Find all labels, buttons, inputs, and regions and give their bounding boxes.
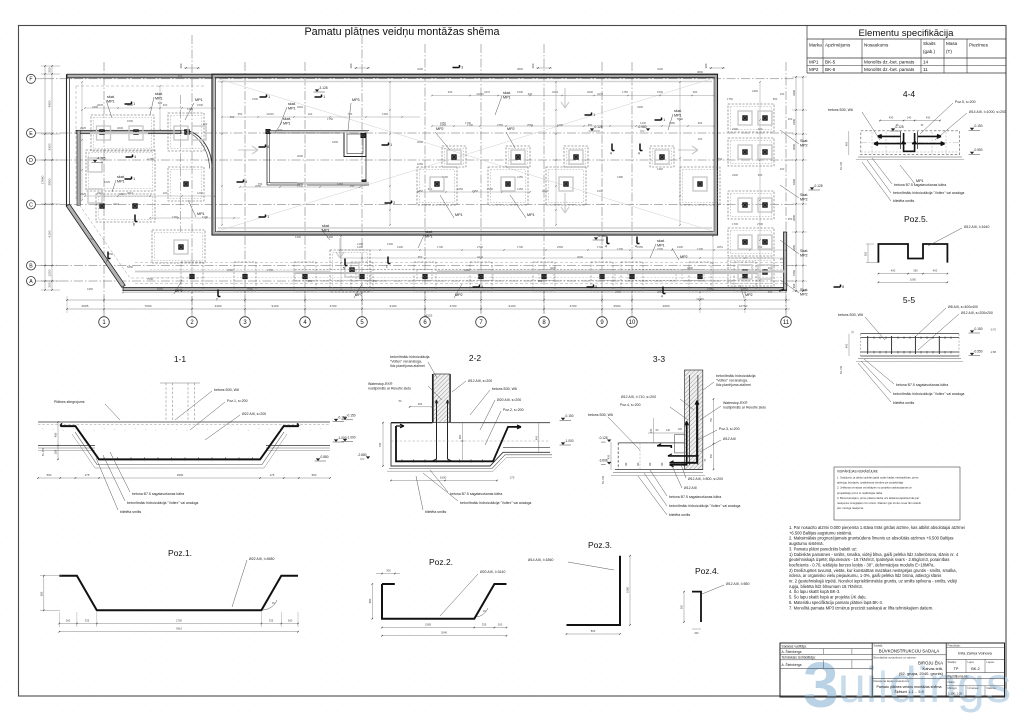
svg-text:1060: 1060 <box>910 277 916 281</box>
svg-text:4600: 4600 <box>577 255 583 259</box>
svg-text:Monolīts dz.-bet. pamats: Monolīts dz.-bet. pamats <box>864 67 915 72</box>
svg-text:1585: 1585 <box>425 623 431 627</box>
svg-text:BK-6: BK-6 <box>825 67 836 72</box>
svg-text:450: 450 <box>418 402 423 406</box>
svg-text:2300: 2300 <box>732 173 738 177</box>
svg-text:Sadaļas vadītāja:: Sadaļas vadītāja: <box>782 644 807 648</box>
svg-text:2500: 2500 <box>614 304 621 308</box>
svg-text:400: 400 <box>844 141 848 146</box>
svg-text:350: 350 <box>864 251 868 256</box>
svg-text:Ø14 AIII, I=1000, s=200: Ø14 AIII, I=1000, s=200 <box>969 110 1006 114</box>
svg-text:800: 800 <box>591 629 596 633</box>
svg-text:200: 200 <box>48 67 52 72</box>
svg-text:750: 750 <box>710 417 713 422</box>
svg-text:betona B7.5 sagatavošanas kātr: betona B7.5 sagatavošanas kātra <box>132 492 184 496</box>
svg-text:"Voltex" vai analoga,: "Voltex" vai analoga, <box>716 378 748 382</box>
svg-text:Ø12 AIII, I=1640: Ø12 AIII, I=1640 <box>964 225 989 229</box>
svg-text:4900: 4900 <box>48 100 52 107</box>
svg-text:10200: 10200 <box>266 112 274 116</box>
grid line 3 <box>244 62 246 317</box>
svg-text:betonītmālu hidroizolācija: betonītmālu hidroizolācija <box>390 355 430 359</box>
svg-text:1450: 1450 <box>517 187 523 191</box>
svg-text:-0.150: -0.150 <box>565 414 574 418</box>
svg-text:1: 1 <box>133 102 135 106</box>
svg-text:1200: 1200 <box>48 269 52 276</box>
svg-text:4: 4 <box>605 245 607 249</box>
svg-text:4400: 4400 <box>464 268 470 272</box>
svg-text:200: 200 <box>780 167 785 171</box>
grid line 5 <box>361 35 363 317</box>
svg-text:350: 350 <box>913 269 918 273</box>
svg-text:2150: 2150 <box>517 175 523 179</box>
svg-text:-0.880: -0.880 <box>320 455 329 459</box>
svg-text:4: 4 <box>661 295 663 299</box>
svg-text:2. Maksimālais prognozējamais: 2. Maksimālais prognozējamais gruntsūden… <box>789 536 953 541</box>
svg-text:Skaits: Skaits <box>923 41 936 46</box>
svg-text:Poz.3, s=200: Poz.3, s=200 <box>719 427 740 431</box>
svg-text:MP1: MP1 <box>455 213 463 217</box>
svg-text:2250: 2250 <box>472 189 478 193</box>
grid line C <box>45 204 795 206</box>
detail Poz.1 <box>59 576 298 611</box>
svg-text:4: 4 <box>635 245 637 249</box>
svg-text:2300: 2300 <box>677 245 683 249</box>
svg-text:300: 300 <box>158 101 163 105</box>
svg-text:Marka: Marka <box>809 43 822 48</box>
detail Poz.4 <box>692 592 701 622</box>
svg-text:260: 260 <box>288 619 293 623</box>
svg-text:Pasūtījuma Nr.:: Pasūtījuma Nr.: <box>948 674 970 678</box>
footing MP1 row <box>417 167 457 205</box>
svg-text:750: 750 <box>718 157 723 161</box>
svg-text:MP2: MP2 <box>800 292 808 296</box>
svg-text:2800: 2800 <box>48 178 52 185</box>
svg-text:6. Materiālu specifikāciju pa: 6. Materiālu specifikāciju pamatu plātne… <box>789 600 883 605</box>
svg-text:400: 400 <box>534 435 538 440</box>
svg-text:2040: 2040 <box>441 631 447 635</box>
svg-text:Poz.1.: Poz.1. <box>168 548 192 558</box>
svg-text:Pamatu plātnes veidņu montāžas: Pamatu plātnes veidņu montāžas shēma <box>304 26 499 38</box>
svg-text:2600: 2600 <box>542 189 548 193</box>
svg-text:3-3: 3-3 <box>653 354 666 364</box>
svg-text:1700: 1700 <box>467 123 473 127</box>
svg-text:1: 1 <box>268 95 270 99</box>
svg-text:1300: 1300 <box>397 245 403 249</box>
svg-text:betona B7.5 sagatavošanas kātr: betona B7.5 sagatavošanas kātra <box>894 183 946 187</box>
svg-text:650: 650 <box>238 112 243 116</box>
svg-text:1700: 1700 <box>517 245 523 249</box>
svg-text:betonītmālu hidroizolācija "Vo: betonītmālu hidroizolācija "Voltex" vai … <box>893 191 964 195</box>
svg-text:3294: 3294 <box>297 105 303 109</box>
svg-text:11: 11 <box>783 320 790 326</box>
section cut marks plan <box>260 96 267 98</box>
footing MP1 b <box>86 150 155 191</box>
svg-text:10: 10 <box>629 320 636 326</box>
svg-text:MP1: MP1 <box>155 96 163 100</box>
svg-text:100: 100 <box>698 137 703 141</box>
grid line 11 <box>785 62 787 317</box>
svg-text:2700: 2700 <box>757 222 763 226</box>
left dimension chain <box>51 66 53 290</box>
plan internal dim rows <box>432 95 714 97</box>
svg-text:100: 100 <box>163 191 168 195</box>
svg-text:950: 950 <box>308 279 313 283</box>
svg-text:BK-5: BK-5 <box>825 60 836 65</box>
svg-text:2600: 2600 <box>663 304 670 308</box>
svg-text:-0.550: -0.550 <box>974 349 983 353</box>
svg-text:(gab.): (gab.) <box>923 49 935 54</box>
svg-text:200: 200 <box>531 63 535 68</box>
svg-text:Izmaiņas:: Izmaiņas: <box>968 686 980 690</box>
svg-text:700: 700 <box>378 442 382 447</box>
section 5-5 labels <box>865 317 885 340</box>
svg-text:50..150: 50..150 <box>840 161 843 170</box>
svg-text:nr. 2 ģeotehniskajā izpētē. No: nr. 2 ģeotehniskajā izpētē. Norokot iepr… <box>789 579 957 584</box>
svg-text:335: 335 <box>482 623 487 627</box>
svg-text:2800: 2800 <box>792 215 796 221</box>
svg-text:200: 200 <box>704 63 708 68</box>
svg-text:Lapa:: Lapa: <box>968 660 975 664</box>
svg-text:50..150: 50..150 <box>42 447 45 456</box>
svg-text:Stadija:: Stadija: <box>948 660 957 664</box>
grid line D <box>45 159 795 161</box>
svg-text:-0.70: -0.70 <box>990 328 996 332</box>
section 2-2 <box>434 374 450 423</box>
svg-text:950: 950 <box>792 283 796 288</box>
svg-text:4400: 4400 <box>215 304 222 308</box>
svg-text:1360: 1360 <box>382 112 388 116</box>
svg-text:MP1: MP1 <box>674 113 682 117</box>
svg-text:1750: 1750 <box>727 97 733 101</box>
svg-text:4700: 4700 <box>330 304 337 308</box>
svg-text:blietēta smilts: blietēta smilts <box>120 510 141 514</box>
svg-text:Ø12 AIII, s=200x200: Ø12 AIII, s=200x200 <box>961 311 993 315</box>
svg-text:240: 240 <box>649 428 653 433</box>
svg-text:-0.150: -0.150 <box>974 327 983 331</box>
svg-text:335: 335 <box>269 619 274 623</box>
section 1-1 <box>38 421 330 423</box>
svg-text:1500: 1500 <box>657 90 663 94</box>
svg-text:2900: 2900 <box>177 473 184 477</box>
svg-text:-1.000: -1.000 <box>347 435 356 439</box>
skat labels <box>106 100 112 118</box>
svg-text:1-1: 1-1 <box>174 354 187 364</box>
svg-text:Poz.5.: Poz.5. <box>904 214 928 224</box>
svg-text:2600: 2600 <box>417 140 423 144</box>
svg-text:betonītmālu hidroizolācija "Vo: betonītmālu hidroizolācija "Voltex" vai … <box>893 392 964 396</box>
svg-text:1. Par nosacīto atzīmi 0.000: 1. Par nosacīto atzīmi 0.000 pieņemta 1.… <box>789 525 965 530</box>
svg-text:260: 260 <box>66 619 71 623</box>
svg-text:F: F <box>29 77 32 83</box>
svg-text:950: 950 <box>538 279 543 283</box>
west inner wall band <box>77 130 80 205</box>
svg-text:projektētāju pirms to realizāc: projektētāju pirms to realizācijas dabā. <box>837 491 883 495</box>
svg-text:50..150: 50..150 <box>840 365 843 374</box>
svg-text:Poz.3.: Poz.3. <box>588 540 612 550</box>
svg-text:Ø12 AIII, s=200: Ø12 AIII, s=200 <box>468 379 492 383</box>
svg-text:-0.128: -0.128 <box>814 184 823 188</box>
svg-text:7000: 7000 <box>145 304 152 308</box>
plan east wall <box>784 232 787 290</box>
svg-text:200: 200 <box>179 63 183 68</box>
svg-text:MP2: MP2 <box>809 67 819 72</box>
svg-text:irdena, ar organisko vielu pie: irdena, ar organisko vielu piejaukumu, 1… <box>789 573 941 578</box>
svg-text:betona B7.5 sagatavošanas kātr: betona B7.5 sagatavošanas kātra <box>669 495 721 499</box>
svg-text:1200: 1200 <box>197 191 203 195</box>
svg-text:g: g <box>957 657 985 713</box>
svg-text:Waterstop-RX®: Waterstop-RX® <box>723 401 748 405</box>
svg-text:-2.880: -2.880 <box>357 453 366 457</box>
svg-text:8: 8 <box>481 285 483 289</box>
svg-text:betonītmālu hidroizolācija "Vo: betonītmālu hidroizolācija "Voltex" vai … <box>127 501 198 505</box>
svg-text:200: 200 <box>278 128 283 132</box>
svg-text:1360: 1360 <box>657 167 663 171</box>
grid line 1 <box>103 62 105 317</box>
svg-text:960: 960 <box>698 121 703 125</box>
svg-text:-3.128: -3.128 <box>319 86 328 90</box>
interior walls <box>267 130 369 132</box>
svg-text:C: C <box>29 202 33 208</box>
detail Poz.2 <box>382 584 507 619</box>
svg-text:4400: 4400 <box>417 67 423 71</box>
svg-text:2360: 2360 <box>752 89 758 93</box>
svg-text:MP1: MP1 <box>657 243 665 247</box>
svg-text:1: 1 <box>593 113 595 117</box>
svg-text:MP1: MP1 <box>503 95 511 99</box>
bottom dimension chain <box>67 299 790 301</box>
svg-text:1800: 1800 <box>332 140 338 144</box>
svg-text:2. Jebkuras izmaiņas vai atkāp: 2. Jebkuras izmaiņas vai atkāpes no proj… <box>837 486 912 490</box>
svg-text:1300: 1300 <box>295 235 301 239</box>
svg-text:1700: 1700 <box>697 247 703 251</box>
svg-text:1360: 1360 <box>337 182 343 186</box>
svg-text:400: 400 <box>891 269 896 273</box>
svg-text:3300: 3300 <box>48 143 52 150</box>
svg-text:1600: 1600 <box>440 476 447 480</box>
svg-text:9100: 9100 <box>509 304 516 308</box>
svg-text:MP3: MP3 <box>352 98 360 102</box>
svg-text:Inita Zariņa Voinova: Inita Zariņa Voinova <box>958 652 992 656</box>
svg-text:1: 1 <box>390 143 392 147</box>
section 2-2 labels <box>428 362 437 378</box>
svg-text:līdz planējuma atzīmei: līdz planējuma atzīmei <box>716 383 751 387</box>
section 3-3 <box>685 370 703 470</box>
svg-text:1380: 1380 <box>617 175 623 179</box>
svg-text:560: 560 <box>39 591 43 596</box>
svg-text:2000: 2000 <box>297 154 303 158</box>
svg-text:7. Monolītā pamata MP3 izmēru: 7. Monolītā pamata MP3 izmērus precizēt … <box>789 605 933 610</box>
svg-text:-2.88: -2.88 <box>990 350 996 354</box>
svg-text:2700: 2700 <box>477 245 483 249</box>
svg-text:B: B <box>29 263 33 269</box>
grid line 2 <box>191 35 193 317</box>
grid line 4 <box>304 62 306 317</box>
svg-text:430: 430 <box>889 116 894 120</box>
svg-text:BK-2: BK-2 <box>971 667 979 671</box>
svg-text:-0.128: -0.128 <box>599 436 608 440</box>
svg-text:blietēta smilts: blietēta smilts <box>669 513 690 517</box>
hall wall rectangle <box>214 76 716 233</box>
svg-text:1750: 1750 <box>327 117 333 121</box>
svg-text:Ø12 AIII: Ø12 AIII <box>723 437 736 441</box>
svg-text:1750: 1750 <box>622 90 628 94</box>
detail Poz.3 <box>567 556 621 625</box>
plan west wall diagonal <box>66 204 125 287</box>
svg-text:17860: 17860 <box>41 175 45 184</box>
svg-text:2651: 2651 <box>742 287 748 291</box>
svg-text:2050: 2050 <box>255 184 261 188</box>
svg-text:2925: 2925 <box>80 126 86 130</box>
section 5-5 <box>861 333 960 335</box>
formwork outlines <box>97 126 111 140</box>
svg-text:1:100; 1:20: 1:100; 1:20 <box>948 692 962 696</box>
svg-text:1: 1 <box>323 95 325 99</box>
svg-text:pēc mēroga rasējumā.: pēc mēroga rasējumā. <box>837 506 864 510</box>
svg-text:950: 950 <box>588 123 593 127</box>
svg-text:"Voltex" vai analoga,: "Voltex" vai analoga, <box>390 359 422 363</box>
svg-text:360: 360 <box>458 434 462 439</box>
svg-text:Poz.4.: Poz.4. <box>695 566 719 576</box>
svg-text:3. Pamatu plātni paredzēts ba: 3. Pamatu plātni paredzēts balstīt uz: <box>789 546 857 551</box>
watermark logo <box>803 649 1011 721</box>
svg-text:140: 140 <box>666 429 671 432</box>
svg-text:Pasūtītājs:: Pasūtītājs: <box>948 644 961 648</box>
svg-text:betons B30, W6: betons B30, W6 <box>828 108 853 112</box>
E row wall band <box>76 130 181 133</box>
svg-text:1060: 1060 <box>626 587 630 593</box>
detail Poz.5 <box>878 244 947 263</box>
svg-text:4. Šo lapu skatīt kopā BK-3.: 4. Šo lapu skatīt kopā BK-3. <box>789 589 840 594</box>
svg-text:2600: 2600 <box>792 144 796 150</box>
svg-text:480: 480 <box>54 432 58 437</box>
svg-text:9100: 9100 <box>272 304 279 308</box>
inner offset dashed <box>76 86 205 278</box>
svg-text:1. Gadījumā, ja darbu izpildes: 1. Gadījumā, ja darbu izpildes gaitā rod… <box>837 476 919 480</box>
svg-text:560: 560 <box>47 473 52 477</box>
svg-text:A: A <box>29 279 33 285</box>
svg-text:2) Dreilizupītes tuvumā, vietā: 2) Dreilizupītes tuvumā, vietās, kur kon… <box>789 568 957 573</box>
svg-text:Waterstop-RX®: Waterstop-RX® <box>368 382 393 386</box>
svg-text:ģeotehniskajā izpētē; tilpumsv: ģeotehniskajā izpētē; tilpumsvars - 19.7… <box>789 557 949 562</box>
grid line A <box>45 280 795 282</box>
svg-text:nostiprināts ar Revofix sietu: nostiprināts ar Revofix sietu <box>723 405 766 409</box>
svg-text:50..150: 50..150 <box>602 475 605 484</box>
svg-text:14: 14 <box>923 60 929 65</box>
section 4-4 <box>861 131 960 155</box>
svg-text:200: 200 <box>780 257 785 261</box>
svg-text:450: 450 <box>710 453 713 458</box>
svg-text:200: 200 <box>349 63 353 68</box>
svg-text:-3.608: -3.608 <box>599 458 608 462</box>
svg-text:300: 300 <box>386 569 391 573</box>
svg-text:blietēta smilts: blietēta smilts <box>425 510 446 514</box>
svg-text:3800: 3800 <box>517 67 523 71</box>
svg-text:Ø14 AIII, I=1860: Ø14 AIII, I=1860 <box>528 558 553 562</box>
svg-text:MP2: MP2 <box>455 293 463 297</box>
svg-text:175: 175 <box>510 476 515 480</box>
svg-text:koeficients - 0.70, iekšējās b: koeficients - 0.70, iekšējās berzes leņķ… <box>789 562 935 567</box>
svg-text:400: 400 <box>845 343 849 348</box>
svg-text:100: 100 <box>308 112 313 116</box>
svg-text:4400: 4400 <box>657 67 663 71</box>
svg-text:betons B30, W6: betons B30, W6 <box>838 313 863 317</box>
hall diagonals <box>216 78 714 232</box>
svg-text:300: 300 <box>163 103 168 107</box>
svg-text:A. Šteinberga: A. Šteinberga <box>782 662 802 667</box>
plan west wall <box>66 74 68 206</box>
svg-text:4630: 4630 <box>117 126 123 130</box>
svg-text:betonītmālu hidroizolācija "Vo: betonītmālu hidroizolācija "Voltex" vai … <box>460 501 531 505</box>
svg-text:1700: 1700 <box>732 222 738 226</box>
svg-text:4610: 4610 <box>119 192 125 196</box>
section 4-4 labels <box>862 112 880 140</box>
svg-text:4700: 4700 <box>570 304 577 308</box>
svg-text:1550: 1550 <box>792 270 796 276</box>
svg-text:i: i <box>866 657 877 713</box>
footing MP1 e <box>330 250 370 292</box>
svg-text:2700: 2700 <box>176 619 182 623</box>
svg-text:Tehniskais izstrādātāja:: Tehniskais izstrādātāja: <box>782 656 816 660</box>
svg-text:-0.150: -0.150 <box>347 414 356 418</box>
curved wall arc <box>184 130 212 167</box>
svg-text:3294: 3294 <box>552 90 558 94</box>
svg-text:rupja, blietēta līdz blīvumam: rupja, blietēta līdz blīvumam 19.7kN/m3. <box>789 584 863 589</box>
svg-text:Poz.5, s=200: Poz.5, s=200 <box>955 100 976 104</box>
svg-text:150: 150 <box>780 92 785 96</box>
svg-text:Masa: Masa <box>946 41 958 46</box>
svg-text:Nosaukums: Nosaukums <box>864 43 889 48</box>
svg-text:3300: 3300 <box>792 90 796 96</box>
general notes box <box>834 467 960 520</box>
svg-text:MP1: MP1 <box>197 212 205 216</box>
svg-text:335: 335 <box>85 619 90 623</box>
grid line 9 <box>601 62 603 317</box>
svg-text:5-5: 5-5 <box>903 295 916 305</box>
svg-text:MP1: MP1 <box>195 98 203 102</box>
svg-text:3910: 3910 <box>176 627 182 631</box>
plan bottom wall <box>123 288 787 291</box>
svg-text:Apzīmējums: Apzīmējums <box>825 43 851 48</box>
formwork gray lines <box>437 270 786 272</box>
svg-text:8: 8 <box>595 285 597 289</box>
footing MP1 a <box>91 115 154 151</box>
svg-text:MP1: MP1 <box>425 234 433 238</box>
svg-text:4700: 4700 <box>450 304 457 308</box>
grid line 6 <box>424 44 426 317</box>
svg-text:3800: 3800 <box>697 70 703 74</box>
svg-text:nostiprināts ar Revofix sietu: nostiprināts ar Revofix sietu <box>368 386 411 390</box>
svg-text:2605: 2605 <box>82 304 89 308</box>
svg-text:4: 4 <box>134 155 136 159</box>
svg-text:950: 950 <box>758 173 763 177</box>
svg-text:Poz.4, s=200: Poz.4, s=200 <box>620 403 641 407</box>
svg-text:-0.980: -0.980 <box>637 125 646 129</box>
footings bottom strip <box>135 262 786 264</box>
svg-text:1050: 1050 <box>457 187 463 191</box>
svg-text:Šķēlumi 1-1 ... 9-9: Šķēlumi 1-1 ... 9-9 <box>894 689 923 694</box>
svg-text:3400: 3400 <box>637 105 643 109</box>
svg-text:4: 4 <box>610 152 612 156</box>
svg-text:2700: 2700 <box>267 268 273 272</box>
svg-text:200: 200 <box>498 623 503 627</box>
svg-text:3. Būvuzņēmējam, pirms pāsūra: 3. Būvuzņēmējam, pirms pāsūra darba uzs … <box>837 496 919 500</box>
svg-text:Ø20 AIII, I=3140: Ø20 AIII, I=3140 <box>480 570 505 574</box>
grid line E <box>45 132 795 134</box>
svg-text:E: E <box>29 131 33 137</box>
plan elevation marks <box>590 128 594 131</box>
svg-text:betons B30, W6: betons B30, W6 <box>492 387 517 391</box>
svg-text:175: 175 <box>270 473 275 477</box>
